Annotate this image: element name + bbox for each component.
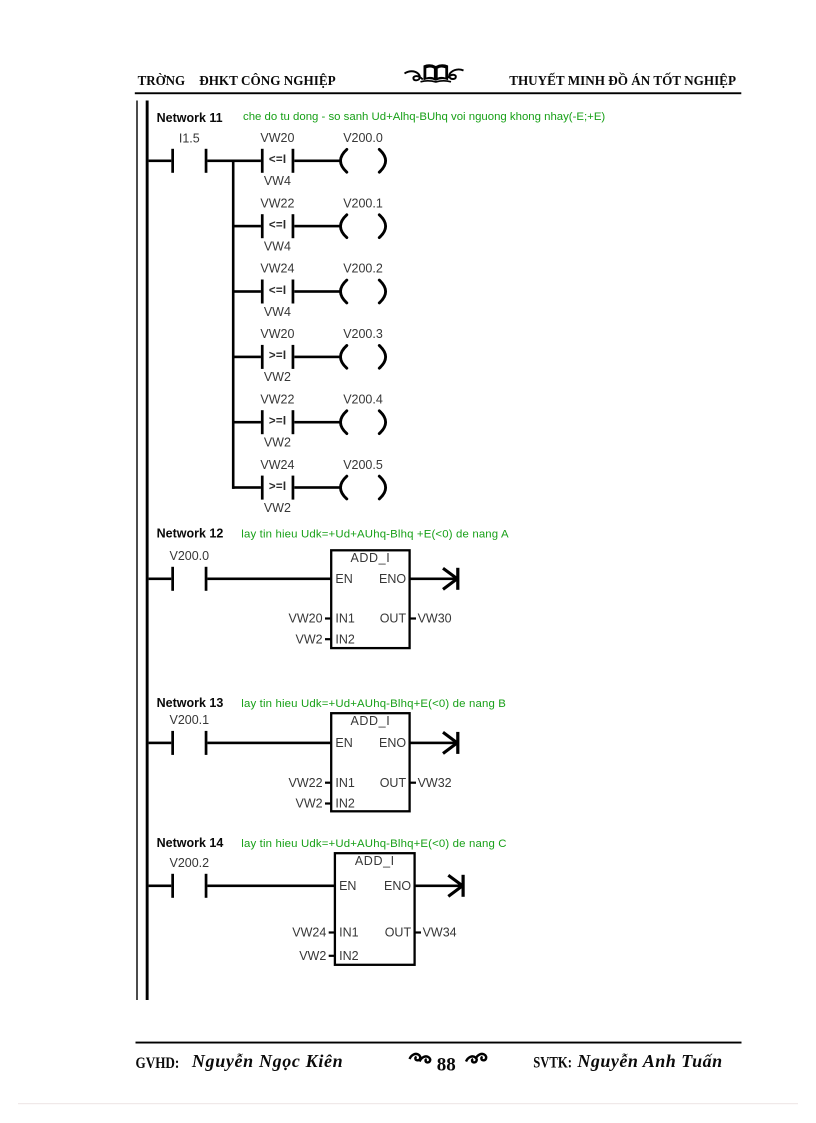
svg-text:VW24: VW24	[260, 458, 294, 472]
function box ADD_I (network 12)	[331, 550, 409, 648]
compare contact VW20 >=I VW2 (row 4)	[261, 345, 294, 369]
wire: contact I1.5 to compare row 1	[207, 160, 261, 163]
svg-text:VW4: VW4	[264, 305, 291, 319]
pin tick OUT	[410, 617, 416, 619]
svg-text:<=I: <=I	[269, 220, 286, 232]
pin tick IN2	[329, 955, 335, 957]
svg-text:VW2: VW2	[296, 632, 323, 646]
branch junction vertical wire	[232, 160, 235, 489]
open branch arrow (network 13)	[443, 732, 459, 754]
svg-text:IN1: IN1	[335, 612, 355, 626]
svg-text:OUT: OUT	[380, 776, 407, 790]
wire: rail to contact V200.1	[149, 742, 172, 745]
svg-text:V200.0: V200.0	[169, 549, 209, 563]
svg-text:VW24: VW24	[260, 262, 294, 276]
svg-text:V200.2: V200.2	[343, 262, 383, 276]
svg-text:che do tu dong - so sanh Ud+Al: che do tu dong - so sanh Ud+Alhq-BUhq vo…	[243, 111, 605, 123]
svg-text:VW2: VW2	[264, 370, 291, 384]
svg-text:IN2: IN2	[335, 632, 355, 646]
svg-text:VW2: VW2	[299, 949, 326, 963]
svg-text:Network 13: Network 13	[157, 696, 224, 710]
svg-text:V200.4: V200.4	[343, 392, 383, 406]
svg-text:I1.5: I1.5	[179, 132, 200, 146]
wire: ENO to branch arrow	[415, 885, 462, 888]
compare contact VW22 >=I VW2 (row 5)	[261, 410, 294, 434]
svg-text:THUYẾT MINH ĐỒ ÁN TỐT NGHIỆP: THUYẾT MINH ĐỒ ÁN TỐT NGHIỆP	[509, 71, 736, 89]
wire: compare to coil row 6	[294, 486, 341, 489]
svg-text:VW22: VW22	[289, 776, 323, 790]
compare contact VW24 >=I VW2 (row 6)	[261, 476, 294, 500]
pin tick IN1	[329, 931, 335, 933]
svg-text:ADD_I: ADD_I	[355, 854, 395, 868]
svg-text:OUT: OUT	[385, 926, 412, 940]
pin tick IN2	[325, 638, 331, 640]
svg-text:IN2: IN2	[335, 797, 355, 811]
header ornament: open book with swashes	[405, 64, 464, 82]
svg-text:VW22: VW22	[260, 392, 294, 406]
wire: ENO to branch arrow	[410, 578, 457, 581]
svg-text:VW20: VW20	[260, 327, 294, 341]
wire: branch to compare row 4	[233, 356, 261, 359]
svg-text:ENO: ENO	[379, 736, 406, 750]
output coil V200.4	[341, 411, 386, 434]
contact V200.1	[171, 731, 174, 755]
open branch arrow (network 12)	[443, 568, 459, 590]
svg-text:VW4: VW4	[264, 240, 291, 254]
svg-text:V200.1: V200.1	[169, 713, 209, 727]
footer right ornament	[466, 1054, 486, 1062]
wire: compare to coil row 3	[294, 290, 341, 293]
svg-text:<=I: <=I	[269, 154, 286, 166]
svg-text:VW20: VW20	[260, 131, 294, 145]
svg-text:VW20: VW20	[289, 612, 323, 626]
wire: rail to contact I1.5	[149, 160, 172, 163]
left power rail (thick)	[146, 101, 149, 1001]
svg-text:V200.3: V200.3	[343, 327, 383, 341]
svg-text:EN: EN	[339, 879, 356, 893]
pin tick IN1	[325, 782, 331, 784]
svg-text:ĐHKT CÔNG NGHIỆP: ĐHKT CÔNG NGHIỆP	[199, 72, 336, 89]
wire: contact V200.1 to ADD_I box EN	[207, 742, 331, 745]
wire: compare to coil row 4	[294, 356, 341, 359]
svg-text:SVTK:: SVTK:	[533, 1054, 572, 1071]
svg-text:ADD_I: ADD_I	[350, 551, 390, 565]
output coil V200.2	[341, 280, 386, 303]
svg-text:VW32: VW32	[418, 776, 452, 790]
wire: rail to contact V200.2	[149, 885, 172, 888]
svg-text:V200.5: V200.5	[343, 458, 383, 472]
contact V200.2	[171, 874, 174, 898]
svg-text:V200.1: V200.1	[343, 196, 383, 210]
svg-text:88: 88	[437, 1055, 456, 1076]
svg-text:GVHD:: GVHD:	[136, 1054, 180, 1072]
svg-text:Network 14: Network 14	[157, 836, 224, 850]
pin tick IN1	[325, 617, 331, 619]
svg-text:>=I: >=I	[269, 350, 286, 362]
output coil V200.1	[341, 215, 386, 238]
svg-text:Nguyễn Ngọc Kiên: Nguyễn Ngọc Kiên	[191, 1051, 343, 1071]
svg-text:VW2: VW2	[264, 501, 291, 515]
footer left ornament	[410, 1054, 431, 1062]
svg-text:V200.2: V200.2	[169, 856, 209, 870]
output coil V200.3	[341, 346, 386, 369]
wire: compare to coil row 1	[294, 160, 341, 163]
svg-text:lay tin hieu Udk=+Ud+AUhq-Blhq: lay tin hieu Udk=+Ud+AUhq-Blhq+E(<0) de …	[241, 838, 506, 850]
contact I1.5	[171, 149, 174, 173]
output coil V200.0	[341, 149, 386, 172]
svg-text:VW22: VW22	[260, 196, 294, 210]
wire: ENO to branch arrow	[410, 742, 457, 745]
wire: branch to compare row 2	[233, 225, 261, 228]
wire: compare to coil row 2	[294, 225, 341, 228]
wire: branch to compare row 6	[233, 486, 261, 489]
svg-text:VW24: VW24	[292, 926, 326, 940]
footer rule line	[136, 1042, 742, 1044]
svg-text:Nguyễn Anh Tuấn: Nguyễn Anh Tuấn	[576, 1051, 722, 1071]
svg-text:>=I: >=I	[269, 416, 286, 428]
compare contact VW20 <=I VW4 (row 1)	[261, 149, 294, 173]
svg-text:V200.0: V200.0	[343, 131, 383, 145]
svg-text:lay tin hieu Udk=+Ud+AUhq-Blhq: lay tin hieu Udk=+Ud+AUhq-Blhq+E(<0) de …	[241, 698, 506, 710]
output coil V200.5	[341, 476, 386, 499]
wire: branch to compare row 5	[233, 421, 261, 424]
contact V200.0	[171, 567, 174, 591]
svg-text:EN: EN	[335, 572, 352, 586]
svg-text:Network 11: Network 11	[157, 111, 223, 125]
svg-text:VW34: VW34	[423, 926, 457, 940]
wire: branch to compare row 3	[233, 290, 261, 293]
svg-text:ADD_I: ADD_I	[350, 714, 390, 728]
svg-text:IN1: IN1	[339, 926, 359, 940]
pin tick OUT	[410, 782, 416, 784]
svg-text:Network 12: Network 12	[157, 527, 224, 541]
compare contact VW24 <=I VW4 (row 3)	[261, 280, 294, 304]
svg-text:EN: EN	[335, 736, 352, 750]
function box ADD_I (network 14)	[335, 853, 415, 965]
compare contact VW22 <=I VW4 (row 2)	[261, 214, 294, 238]
svg-text:OUT: OUT	[380, 612, 407, 626]
pin tick IN2	[325, 802, 331, 804]
svg-text:IN1: IN1	[335, 776, 355, 790]
svg-text:VW2: VW2	[296, 797, 323, 811]
svg-text:ENO: ENO	[379, 572, 406, 586]
header rule line	[135, 92, 742, 94]
open branch arrow (network 14)	[448, 875, 464, 897]
svg-text:>=I: >=I	[269, 481, 286, 493]
pin tick OUT	[415, 931, 421, 933]
left power rail (thin)	[136, 101, 137, 1001]
svg-text:VW30: VW30	[418, 612, 452, 626]
svg-text:lay tin hieu Udk=+Ud+AUhq-Blhq: lay tin hieu Udk=+Ud+AUhq-Blhq +E(<0) de…	[241, 528, 509, 540]
svg-text:VW2: VW2	[264, 436, 291, 450]
wire: contact V200.2 to ADD_I box EN	[207, 885, 335, 888]
wire: contact V200.0 to ADD_I box EN	[207, 578, 331, 581]
svg-text:<=I: <=I	[269, 285, 286, 297]
svg-text:TRỜNG: TRỜNG	[138, 72, 186, 89]
svg-text:IN2: IN2	[339, 949, 359, 963]
faint page-bottom separator	[18, 1103, 798, 1104]
wire: rail to contact V200.0	[149, 578, 172, 581]
svg-text:ENO: ENO	[384, 879, 411, 893]
wire: compare to coil row 5	[294, 421, 341, 424]
function box ADD_I (network 13)	[331, 713, 409, 811]
svg-text:VW4: VW4	[264, 174, 291, 188]
